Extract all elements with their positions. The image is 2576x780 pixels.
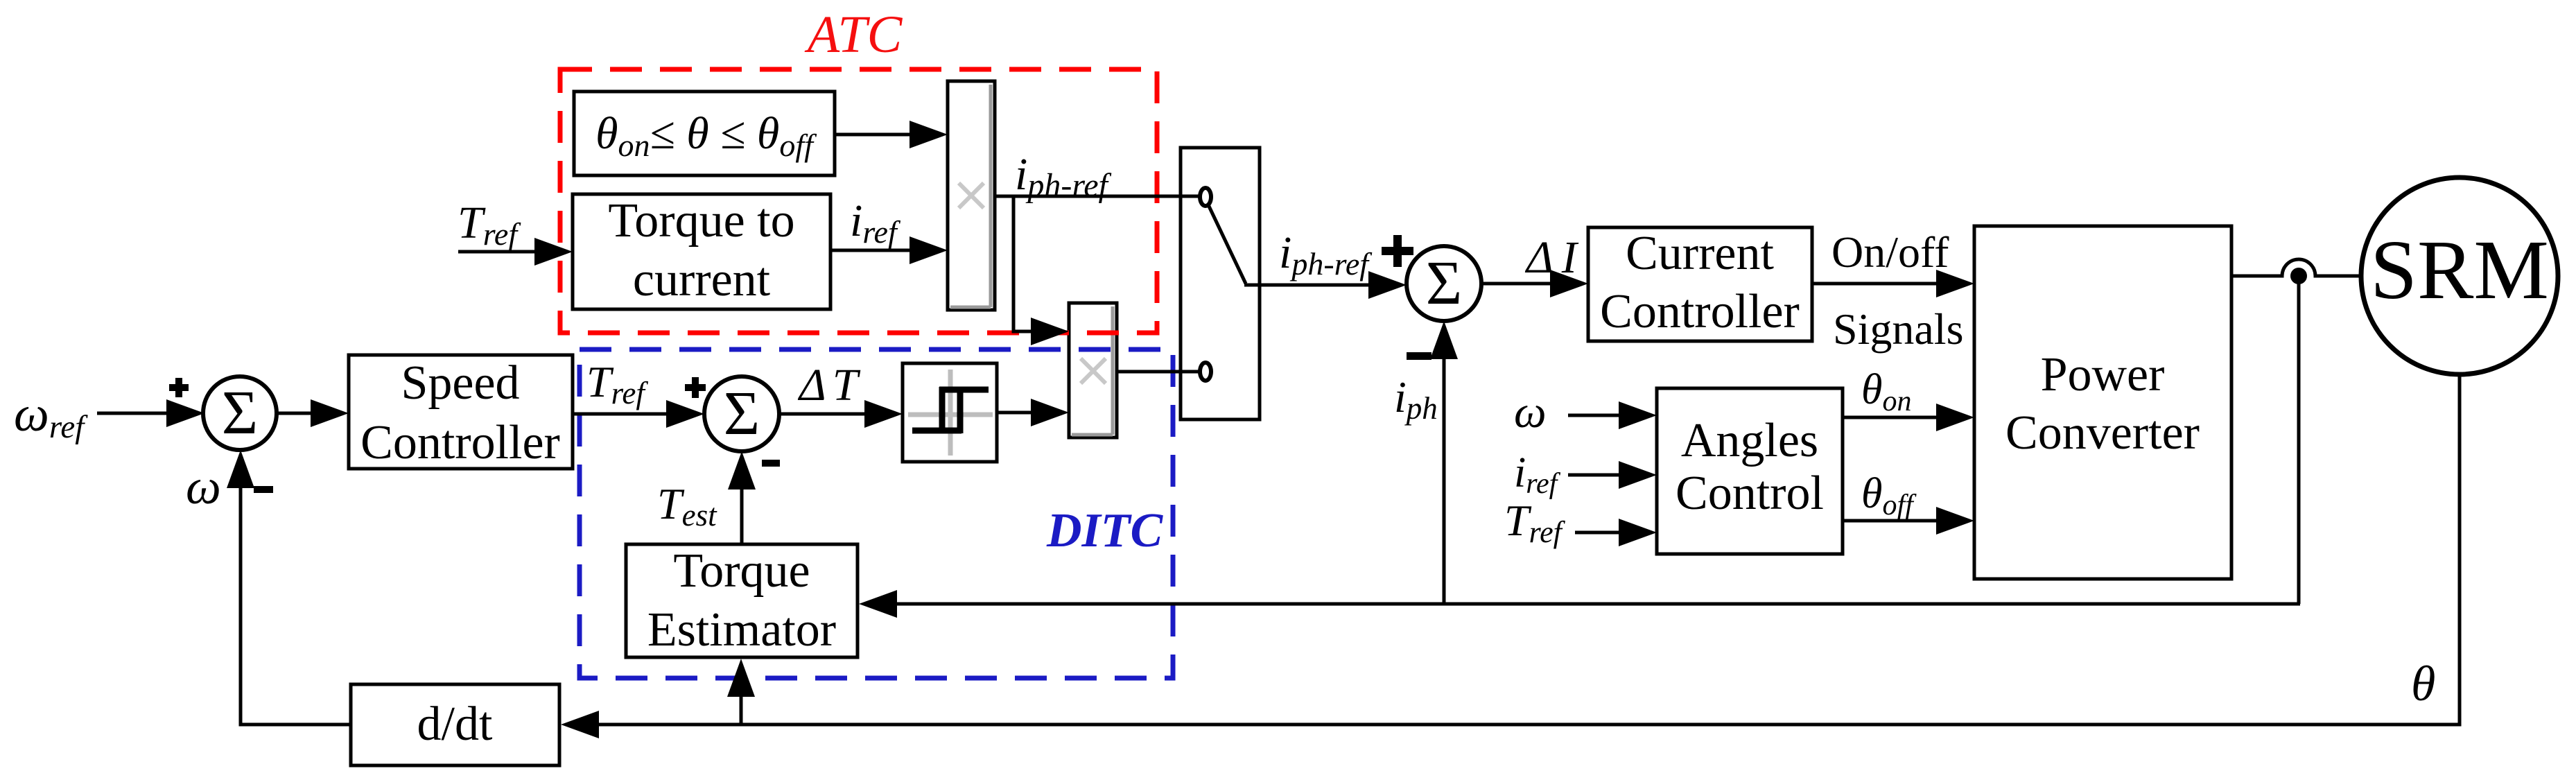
- wire theta block to M1: [835, 133, 912, 137]
- svg-text:ω: ω: [186, 459, 221, 514]
- wire theta branch up into Torque Estimator: [740, 695, 743, 725]
- svg-text:Torque to: Torque to: [608, 194, 794, 248]
- wire S1 to Speed Controller: [277, 412, 312, 415]
- minus sign S3: [1407, 352, 1431, 360]
- wire hysteresis to M2: [997, 411, 1033, 415]
- multiplier block M2: [1069, 303, 1117, 437]
- wire S2 to hysteresis: [779, 413, 867, 416]
- wire T_ref input to Torque to current: [458, 250, 537, 254]
- wire i_ref into Angles Control: [1568, 474, 1621, 477]
- block Current Controller: [1588, 227, 1812, 341]
- svg-text:Σ: Σ: [222, 379, 258, 447]
- ATC dashed boundary box: [560, 69, 1157, 333]
- block Torque Estimator: [626, 544, 858, 657]
- svg-text:Current: Current: [1626, 227, 1774, 280]
- wire i_ph branch up into S3: [1443, 357, 1446, 604]
- block d/dt: [351, 684, 559, 765]
- plus sign S2: [685, 377, 706, 398]
- block Power Converter: [1974, 226, 2231, 579]
- wire Speed Controller to S2: [573, 413, 669, 416]
- wire Current Controller to Power Converter: [1812, 282, 1938, 286]
- wire i_ph feedback horizontal to Torque Estimator: [895, 603, 2300, 606]
- minus sign S1: [254, 486, 273, 493]
- wire M2 to switch lower contact: [1117, 370, 1199, 374]
- svg-text:DITC: DITC: [1046, 504, 1164, 557]
- svg-text:d/dt: d/dt: [417, 697, 493, 751]
- svg-text:ATC: ATC: [804, 6, 903, 64]
- svg-text:Converter: Converter: [2005, 406, 2200, 460]
- block theta_on range: [574, 92, 835, 175]
- plus sign S3: [1382, 235, 1413, 267]
- svg-text:Controller: Controller: [360, 416, 560, 469]
- switch block: [1181, 148, 1260, 419]
- svg-text:Torque: Torque: [673, 544, 810, 598]
- svg-text:Estimator: Estimator: [647, 603, 836, 657]
- block Angles Control: [1657, 388, 1843, 554]
- block Speed Controller: [349, 355, 573, 469]
- wire Torque to current to M1: [830, 249, 912, 252]
- wire i_ph feedback vertical from junction: [2297, 276, 2301, 604]
- svg-text:Control: Control: [1676, 467, 1824, 520]
- wire d/dt output to S1: [241, 486, 351, 725]
- svg-text:SRM: SRM: [2370, 223, 2549, 317]
- wire T_ref into Angles Control: [1575, 531, 1621, 535]
- block Torque to current: [573, 194, 830, 309]
- minus sign S2: [762, 460, 780, 467]
- svg-text:Σ: Σ: [1426, 249, 1462, 318]
- hysteresis relay block: [903, 363, 997, 462]
- summing junction S3: [1407, 246, 1481, 321]
- wire omega into Angles Control: [1568, 414, 1621, 417]
- wire Torque Estimator up into S2: [740, 487, 744, 544]
- wire theta feedback from SRM bottom: [597, 374, 2460, 725]
- svg-text:current: current: [633, 253, 771, 306]
- wire omega_ref input: [97, 412, 173, 415]
- SRM machine circle: [2361, 177, 2558, 374]
- junction dot node: [2290, 268, 2307, 284]
- summing junction S1: [203, 376, 277, 450]
- multiplier block M1: [948, 81, 995, 310]
- svg-text:Signals: Signals: [1833, 304, 1963, 354]
- svg-text:On/off: On/off: [1831, 227, 1949, 277]
- DITC dashed boundary box: [580, 349, 1173, 678]
- wire theta_on Angles Control to Power Converter: [1843, 416, 1938, 419]
- wire branch M1 output down to M2: [1013, 196, 1033, 331]
- wire Power Converter to SRM with hop: [2231, 259, 2362, 276]
- svg-text:ω: ω: [1514, 387, 1547, 437]
- wire theta_off Angles Control to Power Converter: [1843, 519, 1938, 523]
- svg-text:ΔI: ΔI: [1524, 232, 1579, 283]
- wire switch output to S3: [1244, 284, 1370, 287]
- wire S3 to Current Controller: [1481, 282, 1552, 286]
- svg-text:θ: θ: [2411, 656, 2435, 711]
- summing junction S2: [704, 376, 779, 451]
- wire M1 output to switch upper contact: [995, 195, 1199, 198]
- svg-text:Speed: Speed: [401, 356, 519, 410]
- plus sign S1: [169, 378, 189, 397]
- svg-text:Controller: Controller: [1600, 285, 1800, 338]
- svg-text:Σ: Σ: [724, 379, 760, 448]
- svg-text:Power: Power: [2041, 348, 2165, 401]
- svg-text:Angles: Angles: [1681, 414, 1818, 467]
